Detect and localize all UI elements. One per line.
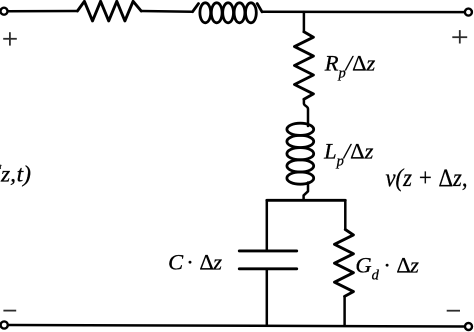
wire top rail left <box>8 10 77 13</box>
svg-text:v(z + Δz,: v(z + Δz, <box>386 165 468 192</box>
left paren fragment of v(z, t) at crop edge <box>0 165 1 169</box>
minus sign left <box>3 310 16 312</box>
resistor Rp (vertical) <box>295 32 314 100</box>
svg-text:z,: z, <box>0 162 16 188</box>
svg-text:Rp/Δz: Rp/Δz <box>324 51 376 82</box>
wire cap branch upper <box>266 200 269 249</box>
resistor Gd (vertical) <box>335 230 354 297</box>
wire parallel top bar <box>267 199 346 202</box>
capacitor C plates <box>239 249 296 252</box>
svg-text:C · Δz: C · Δz <box>168 249 222 274</box>
resistor R series (top) <box>77 1 141 21</box>
plus sign left <box>3 32 17 45</box>
wire jog to Lp <box>304 99 308 126</box>
wire top rail right <box>262 11 465 14</box>
svg-text:Gd · Δz: Gd · Δz <box>355 253 419 284</box>
minus sign right <box>447 310 460 312</box>
wire top rail middle <box>141 10 192 13</box>
wire cap branch lower <box>266 270 269 325</box>
plus sign right <box>452 30 467 43</box>
svg-text:Lp/Δz: Lp/Δz <box>323 139 374 170</box>
inductor Lp (vertical) <box>287 123 314 184</box>
svg-text:t): t) <box>17 162 32 188</box>
wire Lp to bar <box>304 183 308 201</box>
wire Gd branch lower <box>343 296 346 325</box>
inductor L series (top) <box>193 3 262 23</box>
terminal bottom-right <box>465 323 472 330</box>
wire bottom rail <box>9 325 465 327</box>
terminal top-right <box>465 9 472 16</box>
terminal top-left <box>1 8 8 15</box>
terminal bottom-left <box>1 321 8 328</box>
wire Gd branch upper <box>344 200 347 229</box>
wire branch top <box>303 12 306 32</box>
